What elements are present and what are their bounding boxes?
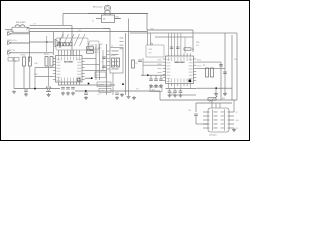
wire [102, 50, 104, 70]
wire [215, 89, 217, 92]
U3 right pins [228, 112, 235, 128]
junction dot [215, 87, 217, 89]
junction dot4 [34, 88, 36, 90]
box F1 [8, 58, 13, 62]
wire [150, 75, 152, 79]
ground [84, 96, 88, 100]
box label B1 [97, 82, 111, 87]
ground [115, 96, 119, 100]
wire [166, 88, 197, 90]
wire [192, 30, 194, 52]
resistor R1 [23, 57, 26, 66]
capacitor C15 [84, 93, 88, 95]
U3 pin labels [214, 112, 225, 129]
capacitor C14 [71, 88, 75, 90]
svg-text:R5 R6: R5 R6 [111, 55, 116, 57]
ground [120, 93, 124, 97]
box label B2 [99, 89, 111, 93]
svg-text:Q1: Q1 [103, 19, 105, 21]
ground [173, 94, 177, 98]
junction dot3 [85, 90, 87, 92]
wire [141, 74, 166, 76]
wire [30, 28, 111, 30]
capacitor C12 [61, 88, 65, 90]
switch S1 contacts [58, 43, 73, 46]
ground [66, 92, 70, 96]
capacitor C3 [102, 66, 106, 68]
U2 left pins [163, 59, 166, 81]
U2 top pins [169, 53, 191, 56]
wire [35, 67, 53, 69]
wire [85, 77, 91, 79]
wire [106, 44, 108, 95]
U1 left pins [53, 59, 56, 80]
resistor R11 [208, 96, 218, 102]
box label B3 [150, 87, 162, 92]
wire [219, 103, 221, 108]
svg-text:INT1: INT1 [152, 89, 156, 91]
wire [155, 75, 157, 79]
capacitor C18 [168, 91, 172, 93]
U2 right pins [194, 59, 197, 81]
wire [53, 32, 55, 56]
ground [24, 93, 28, 97]
wire [62, 32, 64, 39]
wire [46, 36, 48, 52]
svg-text:10k: 10k [14, 61, 17, 63]
inductor L1 [15, 25, 28, 30]
border frame [1, 1, 250, 141]
ground [47, 93, 51, 97]
wire [85, 58, 96, 60]
wire [99, 44, 101, 80]
U2 pin names bottom [168, 79, 191, 83]
wire [224, 33, 226, 88]
wire [30, 31, 148, 33]
wire [143, 61, 163, 63]
wire [30, 25, 73, 27]
ground [61, 92, 65, 96]
wire [143, 64, 163, 66]
junction dot [91, 77, 93, 79]
ground [223, 92, 227, 96]
U1 pin numbers bottom [58, 82, 80, 85]
wire [34, 68, 36, 89]
svg-text:INT: INT [136, 89, 139, 91]
wire [147, 30, 149, 45]
U1 bottom pins [59, 82, 80, 85]
capacitor C6 [154, 79, 158, 81]
box filter [146, 45, 164, 57]
wire [215, 103, 217, 108]
wire [142, 58, 144, 76]
resistor R3 [87, 47, 94, 49]
resistor R7 [132, 60, 135, 68]
svg-text:R7: R7 [136, 63, 138, 65]
wire [128, 44, 130, 95]
wire [233, 100, 235, 112]
svg-text:R1 R2: R1 R2 [21, 55, 26, 57]
svg-text:R8: R8 [192, 49, 194, 51]
svg-text:R3 1k: R3 1k [95, 48, 99, 50]
U2 pin names right [189, 59, 193, 82]
wire [174, 89, 176, 92]
wire [35, 76, 53, 78]
resistor R6 [117, 58, 120, 67]
junction dot [147, 74, 149, 76]
IC U2 body [166, 56, 194, 84]
U3 inner right column [224, 110, 226, 131]
ground [127, 95, 131, 99]
ground [12, 90, 16, 94]
wire [75, 90, 160, 92]
junction dot2 [122, 83, 124, 85]
wire [169, 33, 186, 53]
capacitor C16 [194, 114, 198, 116]
ground [232, 128, 236, 132]
ground [159, 84, 163, 88]
svg-text:4x: 4x [100, 48, 102, 50]
ferrite box [12, 27, 29, 32]
switch S1 body [56, 38, 88, 50]
wire [29, 32, 31, 63]
resistor R10 [211, 68, 214, 77]
svg-text:3V3: 3V3 [149, 53, 152, 55]
Y1 pin rows [107, 51, 119, 70]
svg-text:MK1 buzzer: MK1 buzzer [93, 7, 103, 9]
wire [103, 28, 110, 30]
connector U3 body [208, 108, 229, 132]
ground [71, 92, 75, 96]
U1 pin names top [58, 57, 80, 61]
box X1 [95, 72, 106, 78]
U2 bottom pins [169, 84, 191, 87]
capacitor C4 [138, 60, 142, 62]
wire [58, 84, 115, 86]
wire [85, 64, 100, 66]
svg-text:SCL: SCL [196, 45, 199, 47]
wire [224, 89, 226, 93]
connector J2 [8, 41, 30, 44]
svg-text:RESET: RESET [99, 84, 104, 86]
switch S1 actuator marks [58, 34, 86, 46]
wire [196, 123, 208, 125]
U1 pin names bottom [58, 78, 80, 82]
relay K1 box [89, 41, 99, 50]
U2 pin1 marker [189, 80, 192, 83]
connector J3 [8, 51, 53, 54]
capacitor C11 [223, 72, 227, 74]
wire [220, 62, 222, 100]
resistor R9 [206, 68, 209, 77]
transistor Q1 [96, 14, 120, 23]
wire [146, 14, 148, 31]
U1 pin1 marker [78, 79, 81, 82]
wire [95, 44, 97, 80]
svg-text:C16: C16 [188, 110, 191, 112]
U2 left outside labels [158, 60, 162, 73]
resistor R14 [50, 57, 53, 67]
U1 right pins [82, 59, 85, 80]
wire [130, 32, 237, 34]
wire [13, 57, 15, 89]
wire [71, 26, 73, 56]
ground [132, 96, 136, 100]
wire [62, 14, 64, 26]
capacitor C7 [159, 79, 163, 81]
svg-text:MMA7660: MMA7660 [174, 61, 185, 64]
capacitor C5 [149, 79, 153, 81]
svg-text:FB1 BLM21: FB1 BLM21 [16, 22, 26, 24]
box Y1 [110, 48, 123, 74]
wire [195, 103, 197, 112]
wire [155, 36, 193, 38]
wire [196, 67, 225, 69]
ground [168, 94, 172, 98]
U3 left pins [203, 112, 210, 128]
svg-text:R3 R4: R3 R4 [44, 54, 49, 56]
U1 pin names right [77, 59, 81, 81]
svg-text:MC9S08: MC9S08 [64, 61, 73, 63]
capacitor C19 [173, 91, 177, 93]
svg-text:J4 header: J4 header [209, 134, 217, 137]
svg-text:3V3: 3V3 [33, 24, 36, 26]
junction [46, 41, 48, 43]
svg-text:R4 1k: R4 1k [95, 52, 99, 54]
wire [112, 73, 114, 95]
capacitor C2 [102, 57, 106, 59]
box F2 [14, 58, 19, 62]
resistor R2 [28, 57, 31, 66]
svg-text:RV1: RV1 [222, 98, 225, 100]
wire [196, 87, 232, 89]
capacitor C9 [176, 47, 180, 49]
wire [85, 70, 107, 72]
svg-text:J2: J2 [111, 46, 113, 48]
U1 pin names left [57, 59, 61, 81]
capacitor C1 [24, 90, 28, 92]
U3 inner left column [212, 110, 214, 131]
wire [109, 29, 111, 48]
diode D1 [55, 38, 60, 48]
U1 top pins [59, 50, 80, 56]
wire [88, 13, 148, 15]
resistor R5 [112, 58, 115, 67]
resistor R13 [45, 57, 48, 67]
buzzer LS1 [104, 5, 111, 13]
junction dot [88, 83, 90, 85]
wire [180, 89, 182, 92]
U2 pin names left [167, 59, 171, 82]
wire [168, 94, 196, 96]
capacitor C17 [115, 93, 119, 95]
svg-text:C2: C2 [101, 62, 103, 64]
wire [115, 18, 122, 20]
wire [30, 41, 54, 43]
wire [160, 75, 162, 79]
wire [29, 66, 31, 89]
connector J1 [8, 32, 30, 35]
svg-text:1k: 1k [92, 21, 94, 23]
pin label ticks [120, 38, 124, 50]
ground [154, 84, 158, 88]
wire [169, 89, 171, 92]
wire [195, 116, 197, 125]
wire [160, 99, 237, 101]
ground [214, 92, 218, 96]
resistor R4 [87, 51, 94, 53]
IC U1 body [56, 56, 83, 83]
wire [48, 66, 50, 86]
wire [88, 43, 89, 45]
wire [5, 29, 12, 31]
wire [128, 19, 130, 45]
wire [211, 100, 213, 108]
wire [150, 33, 152, 45]
wire [196, 61, 221, 63]
svg-text:F1: F1 [8, 56, 10, 58]
svg-text:DIP: DIP [100, 44, 103, 46]
wire [169, 86, 191, 88]
U2 pin names top [168, 57, 191, 61]
wire [63, 13, 147, 15]
ground [179, 94, 183, 98]
svg-text:VOUT: VOUT [170, 93, 174, 95]
diode D2 [46, 87, 51, 92]
capacitor C13 [66, 88, 70, 90]
wire [14, 88, 60, 90]
svg-text:X1: X1 [97, 75, 99, 77]
wire [23, 66, 25, 89]
capacitor C10 [219, 65, 223, 67]
wire [159, 91, 161, 100]
junction 2 [150, 43, 152, 45]
svg-text:5V: 5V [236, 112, 238, 114]
capacitor C20 [179, 91, 183, 93]
wire [231, 35, 233, 100]
ground [149, 84, 153, 88]
svg-text:R9: R9 [203, 65, 205, 67]
svg-text:LDO: LDO [149, 49, 153, 51]
resistor R8 [184, 48, 191, 50]
wire [125, 33, 127, 95]
wire [147, 29, 193, 31]
wire [196, 102, 232, 104]
wire [236, 33, 238, 100]
svg-text:GND2: GND2 [97, 94, 101, 96]
capacitor C8 [170, 47, 174, 49]
